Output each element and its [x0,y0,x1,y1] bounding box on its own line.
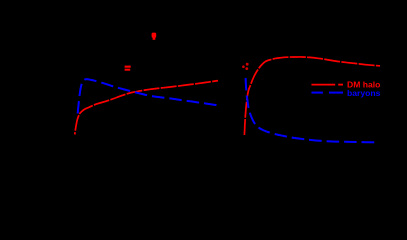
svg-text:baryons: baryons [347,88,381,98]
